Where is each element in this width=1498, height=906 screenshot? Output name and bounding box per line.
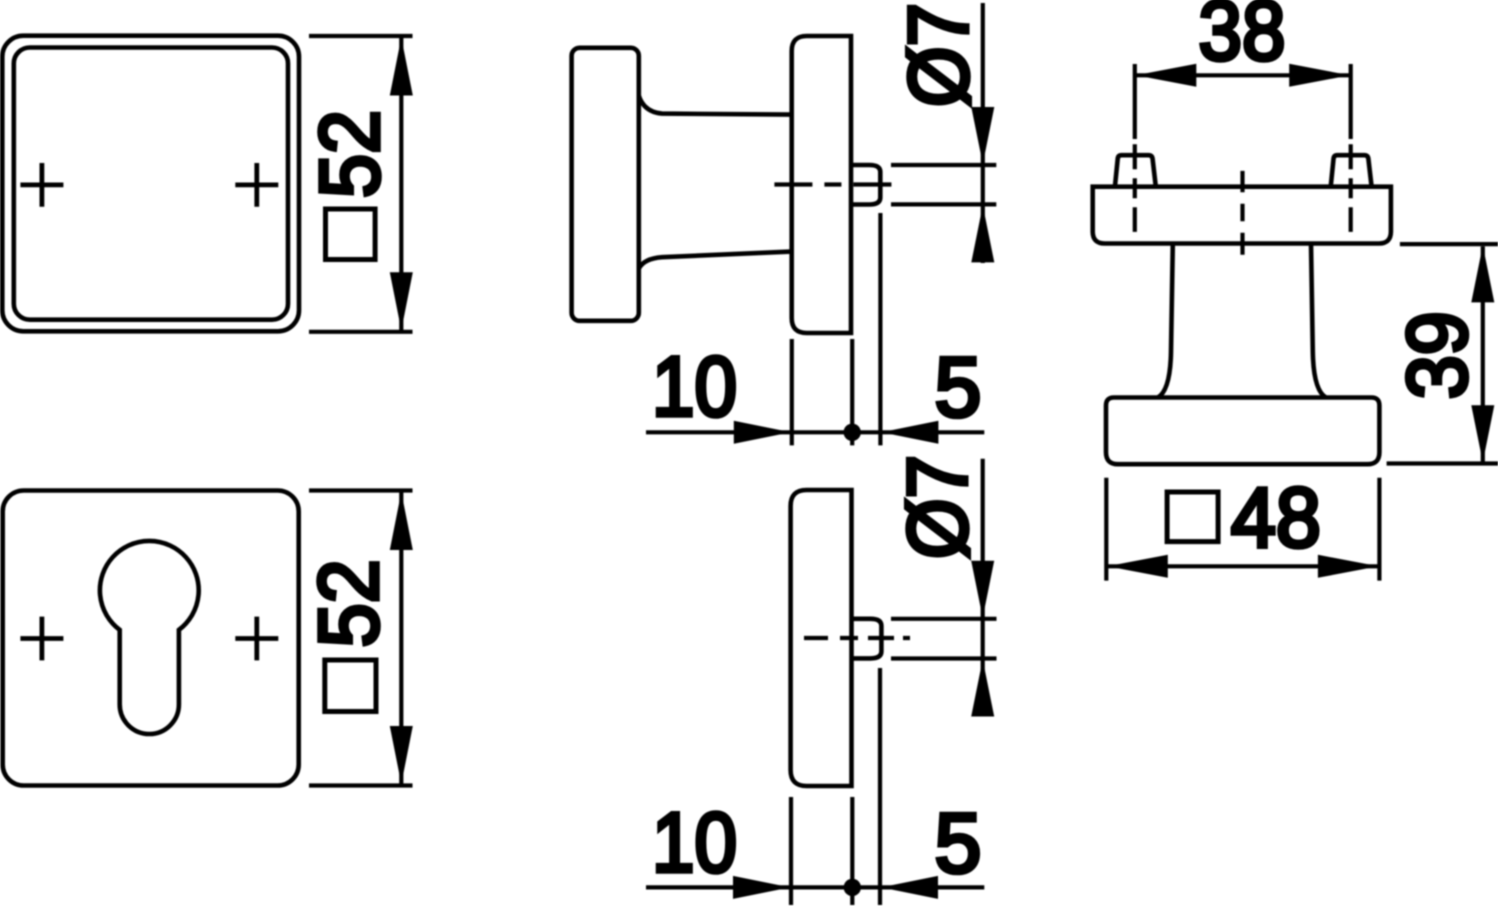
rosette side view (lower): spindle stub: [852, 619, 882, 659]
dimension D7 (upper): extension line bottom: [891, 202, 996, 206]
dimension 38: extension line left: [1133, 64, 1137, 139]
svg-text:48: 48: [1231, 471, 1321, 565]
dimension 52 (bottom rosette): dimension line: [399, 491, 403, 786]
square rosette front view (top left) outer contour: [2, 36, 299, 332]
screw mark cross left (top rosette): [20, 163, 63, 207]
svg-text:52: 52: [303, 110, 397, 198]
knob front view: centerline middle dashed: [1240, 171, 1244, 255]
knob front view: rosette plate: [1093, 187, 1391, 244]
dimension 52 (bottom rosette): arrowhead down: [390, 726, 413, 784]
dimension 39: arrowhead up: [1471, 245, 1494, 302]
dimension 10/5 (upper): extension line middle: [850, 339, 854, 445]
svg-text:5: 5: [935, 796, 982, 890]
dimension 48: extension line left: [1104, 478, 1108, 581]
svg-text:5: 5: [935, 340, 982, 434]
dimension 10/5 (lower): extension line right: [878, 668, 882, 905]
knob front view: neck right edge: [1311, 244, 1326, 398]
knob side view: spindle stub: [851, 165, 880, 205]
knob front view: knob body: [1106, 398, 1379, 465]
dimension 10/5 (upper): dimension line: [646, 430, 984, 434]
knob side view: rosette plate: [792, 36, 851, 333]
dimension 52 (top rosette): arrowhead up: [390, 38, 413, 96]
dimension 52 (top rosette): dimension line: [399, 36, 403, 332]
PZ keyhole profile: [100, 541, 199, 734]
svg-text:39: 39: [1390, 311, 1484, 399]
dimension D7 (lower): extension line top: [891, 617, 997, 621]
knob side view: neck top edge: [639, 96, 791, 115]
dimension 52 (top rosette): square symbol: [326, 209, 376, 260]
dimension D7 (upper): dimension line: [981, 3, 985, 263]
knob side view: neck bottom edge: [639, 252, 791, 269]
dimension D7 (upper): extension line top: [891, 163, 996, 167]
dimension 10/5 (lower): arrowhead right: [733, 876, 790, 899]
dimension 38: extension line right: [1349, 64, 1353, 139]
dimension 48: extension line right: [1377, 478, 1381, 581]
dimension 39: arrowhead down: [1471, 405, 1494, 462]
dimension D7 (upper): arrowhead down: [971, 107, 994, 164]
square rosette inner contour: [14, 48, 288, 320]
dimension 48: arrowhead left: [1107, 555, 1168, 578]
knob side view: knob head: [572, 48, 639, 321]
knob side view: centerline dashed: [774, 182, 894, 186]
knob front view: centerline left dashed: [1133, 144, 1137, 232]
dimension D7 (lower): extension line bottom: [891, 656, 997, 660]
knob front view: centerline right dashed: [1349, 144, 1353, 232]
dimension 48: arrowhead right: [1318, 555, 1379, 578]
dimension 38: arrowhead left: [1136, 64, 1197, 87]
dimension D7 (lower): arrowhead up: [971, 660, 994, 717]
screw mark cross left (bottom rosette): [20, 617, 63, 661]
dimension D7 (upper): arrowhead up: [971, 205, 994, 262]
dimension 38: arrowhead right: [1289, 64, 1350, 87]
dimension 10/5 (lower): extension line left: [789, 797, 793, 905]
dimension 52 (bottom rosette): square symbol: [325, 660, 376, 712]
dimension 10/5 (lower): separator dot: [844, 879, 861, 896]
dimension 52 (top rosette): arrowhead down: [390, 272, 413, 330]
svg-text:52: 52: [302, 559, 396, 647]
dimension 48: dimension line: [1106, 564, 1379, 568]
dimension 10/5 (upper): extension line right: [878, 213, 882, 445]
dimension 52 (top rosette): extension line top: [309, 34, 413, 38]
dimension 52 (bottom rosette): arrowhead up: [390, 492, 413, 550]
dimension 10/5 (upper): arrowhead right: [734, 421, 791, 444]
svg-text:Ø7: Ø7: [892, 3, 986, 107]
knob front view: screw post right: [1331, 155, 1372, 186]
rosette side view (lower): plate: [791, 490, 852, 786]
dimension 52 (top rosette): extension line bottom: [309, 330, 413, 334]
svg-text:10: 10: [652, 796, 737, 890]
dimension 48: square symbol: [1167, 492, 1218, 542]
dimension 10/5 (upper): separator dot: [844, 424, 861, 441]
dimension 52 (bottom rosette): extension line bottom: [309, 783, 413, 787]
knob front view: screw post left: [1115, 155, 1156, 186]
dimension 10/5 (upper): extension line left: [790, 339, 794, 445]
dimension D7 (lower): dimension line: [981, 459, 985, 715]
svg-text:10: 10: [652, 340, 737, 434]
dimension 10/5 (lower): arrowhead left: [881, 876, 938, 899]
knob front view: neck left edge: [1158, 244, 1173, 398]
dimension 39: dimension line: [1481, 246, 1485, 463]
rosette side view (lower): centerline dashed: [804, 636, 910, 640]
dimension D7 (lower): arrowhead down: [971, 561, 994, 618]
svg-text:38: 38: [1199, 0, 1286, 78]
dimension 10/5 (upper): arrowhead left: [881, 421, 938, 444]
dimension 39: extension line top: [1400, 242, 1498, 246]
dimension 39: extension line bottom: [1387, 461, 1498, 465]
svg-text:Ø7: Ø7: [891, 455, 985, 559]
dimension 52 (bottom rosette): extension line top: [309, 488, 413, 492]
dimension 38: dimension line: [1135, 73, 1351, 77]
dimension 10/5 (lower): dimension line: [646, 885, 984, 889]
PZ rosette front view (bottom left) contour: [3, 491, 299, 786]
dimension 10/5 (lower): extension line middle: [850, 797, 854, 905]
screw mark cross right (top rosette): [235, 163, 278, 207]
screw mark cross right (bottom rosette): [235, 617, 278, 661]
